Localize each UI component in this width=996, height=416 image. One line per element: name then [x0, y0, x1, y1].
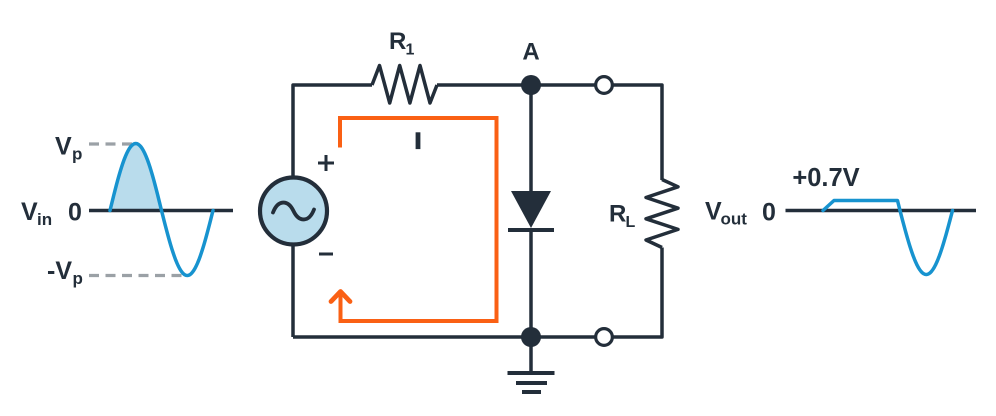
svg-text:V: V	[705, 198, 722, 226]
svg-text:R: R	[389, 28, 406, 55]
svg-text:A: A	[522, 39, 539, 66]
svg-text:0: 0	[762, 199, 776, 227]
svg-text:in: in	[37, 210, 52, 229]
svg-text:out: out	[721, 210, 748, 229]
svg-text:p: p	[73, 269, 83, 288]
svg-text:R: R	[609, 201, 626, 228]
svg-text:-V: -V	[47, 257, 72, 285]
svg-text:V: V	[55, 133, 72, 161]
svg-text:+0.7V: +0.7V	[792, 164, 859, 192]
svg-text:L: L	[626, 214, 636, 231]
svg-text:V: V	[21, 198, 38, 226]
svg-text:1: 1	[406, 42, 415, 59]
svg-text:p: p	[72, 145, 82, 164]
svg-text:0: 0	[68, 199, 82, 227]
